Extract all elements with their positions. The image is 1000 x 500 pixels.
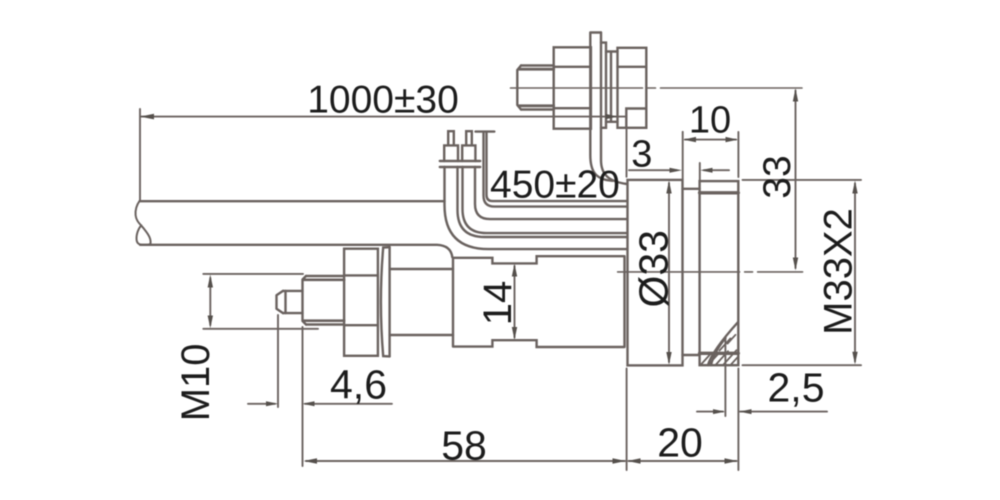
thermostat bracket plate xyxy=(590,33,627,185)
wire 1 inner xyxy=(458,167,628,237)
arrows 58 xyxy=(304,458,318,464)
capillary top bar xyxy=(476,130,495,132)
threaded bush xyxy=(700,181,739,365)
section arcs xyxy=(708,322,738,365)
section hatching xyxy=(701,335,738,365)
thermostat centerline xyxy=(511,87,803,89)
conical washer disc xyxy=(381,247,390,356)
svg-text:M33X2: M33X2 xyxy=(817,208,861,335)
thermostat neck xyxy=(606,52,618,122)
terminal body 2 xyxy=(462,145,475,161)
svg-text:Ø33: Ø33 xyxy=(631,230,677,308)
dim 4,6 xyxy=(248,315,392,466)
arrows 4,6 xyxy=(266,401,278,406)
terminal pin 1 xyxy=(448,131,454,145)
dim M10 xyxy=(203,274,318,329)
svg-text:2,5: 2,5 xyxy=(768,365,825,411)
ext line from notch xyxy=(626,111,628,177)
arrows 20 xyxy=(627,458,640,464)
dim 1000±30 line xyxy=(140,109,626,200)
arrows 14 xyxy=(512,264,517,277)
thermostat plate 2 xyxy=(601,43,606,128)
dim 14 xyxy=(514,266,516,338)
groove valley lines xyxy=(683,189,700,355)
svg-text:4,6: 4,6 xyxy=(330,362,387,408)
terminal pin 2 xyxy=(466,131,472,145)
arrows M33X2 xyxy=(852,181,857,194)
arrows 2,5 xyxy=(713,409,725,414)
flange disc xyxy=(628,180,683,366)
svg-text:58: 58 xyxy=(441,423,487,469)
probe centerline xyxy=(618,271,803,273)
dim M33X2 xyxy=(743,180,862,365)
arrows Ø33 xyxy=(666,181,671,194)
svg-text:450±20: 450±20 xyxy=(490,164,620,207)
dim 2,5 xyxy=(697,338,827,416)
probe tube xyxy=(390,269,453,335)
thermostat notch panel xyxy=(626,109,646,128)
probe M10 neck xyxy=(303,276,345,325)
wire 2 inner xyxy=(475,167,627,219)
wire 1 outer xyxy=(445,167,628,249)
arrows 10 xyxy=(683,137,696,142)
wire 2 outer xyxy=(463,167,628,233)
dim 58 and 20 xyxy=(306,369,738,471)
arrow 1000 right xyxy=(606,114,619,119)
probe hex nut xyxy=(344,249,378,356)
terminal plate xyxy=(440,161,480,167)
dim 3 xyxy=(629,163,729,181)
thermostat end block xyxy=(618,48,647,128)
dim Ø33 xyxy=(668,183,670,362)
dim 10 xyxy=(683,132,739,179)
thermostat thread xyxy=(517,66,553,110)
svg-text:10: 10 xyxy=(689,99,731,141)
dim 33 xyxy=(795,91,797,269)
arrows 33 xyxy=(793,88,798,101)
svg-text:33: 33 xyxy=(756,155,799,198)
arrow 3 left-pair xyxy=(670,168,683,173)
arrows M10 xyxy=(208,275,213,288)
element body block xyxy=(453,256,625,347)
svg-text:14: 14 xyxy=(476,281,520,326)
arrowheads xyxy=(140,88,858,464)
svg-text:M10: M10 xyxy=(174,343,218,421)
svg-text:20: 20 xyxy=(657,420,703,466)
cable xyxy=(136,201,453,257)
probe tip xyxy=(277,291,303,313)
arrow 1000 left xyxy=(140,114,154,120)
svg-text:3: 3 xyxy=(631,134,652,176)
terminal body 1 xyxy=(444,145,458,161)
capillary outer xyxy=(484,133,628,207)
capillary inner xyxy=(487,133,628,201)
svg-text:1000±30: 1000±30 xyxy=(307,79,459,122)
thermostat hex body xyxy=(554,47,591,128)
